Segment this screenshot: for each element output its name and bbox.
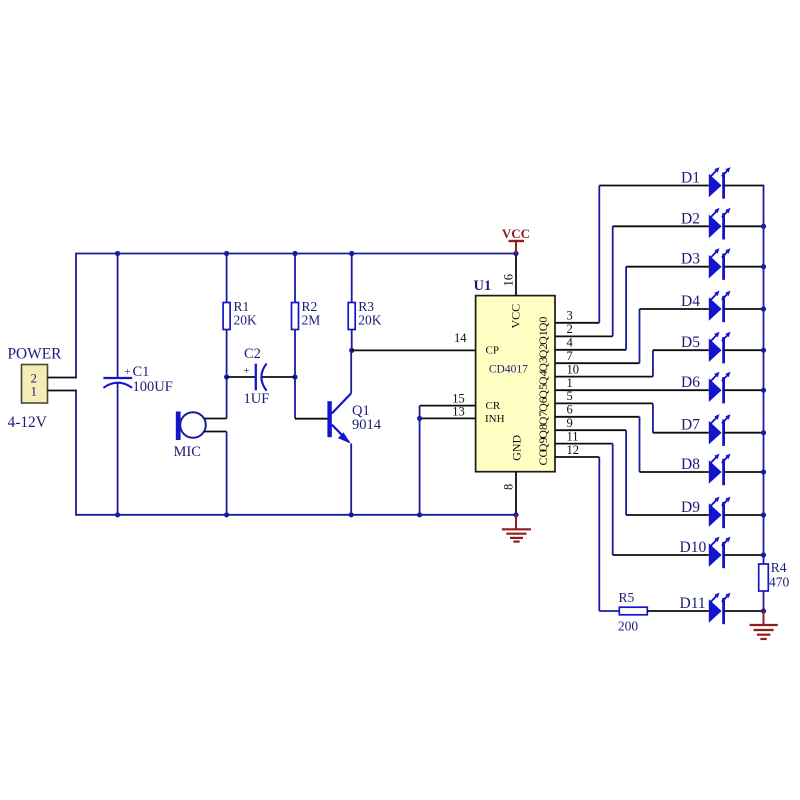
wire D1 cathode to right rail — [724, 185, 764, 187]
svg-text:Q5: Q5 — [536, 384, 550, 399]
svg-text:5: 5 — [567, 389, 573, 403]
wire D7 cathode to right rail — [724, 432, 764, 434]
svg-text:D9: D9 — [681, 499, 700, 516]
svg-text:D8: D8 — [681, 456, 700, 473]
wire left rail upper segment — [75, 253, 77, 378]
wire D10 row horizontal — [613, 554, 709, 556]
svg-text:13: 13 — [452, 404, 465, 418]
microphone MIC electret bar — [176, 412, 181, 441]
svg-text:GND: GND — [510, 434, 524, 460]
wire CR/INH vertical to ground rail — [419, 406, 421, 516]
svg-text:470: 470 — [769, 575, 790, 590]
node R1 / C2 junction — [224, 374, 229, 379]
node CR INH ground junction — [417, 512, 422, 517]
transistor Q1 emitter stroke — [332, 425, 349, 442]
node R2 top junction — [292, 251, 297, 256]
wire U1 pin 12 stub — [555, 456, 599, 458]
svg-text:2: 2 — [31, 372, 37, 386]
microphone MIC circle — [180, 412, 206, 438]
resistor R2 body — [292, 303, 299, 330]
wire U1 pin 10 stub — [555, 376, 653, 378]
wire D11 cathode to right rail — [724, 610, 764, 612]
wire U1 pin 15 CR stub — [420, 405, 476, 407]
node Q1 emitter ground junction — [349, 512, 354, 517]
svg-text:+: + — [243, 365, 249, 377]
LED D7 — [709, 414, 731, 446]
LED D6 — [709, 372, 731, 404]
svg-text:D11: D11 — [680, 595, 706, 612]
svg-text:Q7: Q7 — [536, 411, 550, 426]
wire U1 pin 3 stub — [555, 322, 599, 324]
wire U1 pin 2 stub — [555, 335, 613, 337]
wire U1 pin 5 stub — [555, 402, 653, 404]
svg-text:MIC: MIC — [174, 444, 201, 460]
wire pin12 riser corner to R5 — [599, 610, 619, 612]
node right rail junction at D7 — [761, 430, 766, 435]
svg-text:15: 15 — [452, 391, 465, 405]
wire D9 row horizontal — [626, 514, 709, 516]
node R2 / C2 junction — [292, 374, 297, 379]
wire C2 left lead — [227, 376, 256, 378]
node R3 / collector / CP junction — [349, 348, 354, 353]
svg-text:+: + — [124, 366, 130, 378]
wire R2 bottom lead to Q1 base node — [294, 330, 296, 419]
svg-text:VCC: VCC — [509, 304, 523, 329]
wire R1 bottom lead to mic node — [226, 330, 228, 419]
wire MIC lower lead — [204, 431, 227, 433]
wire U1 pin 1 to D6 — [555, 389, 709, 391]
node right rail junction at D5 — [761, 348, 766, 353]
LED D11 — [709, 593, 731, 625]
node right rail junction at D10 — [761, 552, 766, 557]
wire top VCC rail — [76, 253, 517, 255]
wire riser pin 10 to D5 row — [652, 350, 654, 376]
svg-text:D4: D4 — [681, 293, 700, 310]
svg-text:9014: 9014 — [352, 417, 382, 433]
svg-text:1: 1 — [567, 376, 573, 390]
svg-text:20K: 20K — [234, 312, 258, 327]
node ground junction at pin 8 — [513, 512, 518, 517]
wire U1 pin 4 stub — [555, 349, 626, 351]
capacitor C2 positive plate — [255, 364, 257, 391]
wire Q1 collector to CP node — [350, 350, 352, 393]
wire Q1 emitter to ground rail — [350, 444, 352, 516]
LED D9 — [709, 497, 731, 529]
wire D6 cathode to right rail — [724, 389, 764, 391]
wire connector pin 1 stub — [48, 390, 77, 392]
node D11 / R4 ground junction — [761, 608, 766, 613]
wire U1 pin 11 stub — [555, 443, 613, 445]
svg-text:2M: 2M — [302, 312, 321, 327]
wire C1 column lower — [117, 382, 119, 516]
wire U1 pin 6 stub — [555, 416, 640, 418]
wire riser pin 12 to D11 row — [598, 457, 600, 611]
capacitor C1 positive plate — [103, 377, 132, 379]
wire D4 cathode to right rail — [724, 308, 764, 310]
capacitor C2 curved plate — [261, 364, 266, 391]
svg-text:7: 7 — [567, 349, 573, 363]
wire MIC lower lead to ground rail — [226, 432, 228, 516]
svg-text:12: 12 — [567, 443, 580, 457]
node right rail junction at D8 — [761, 469, 766, 474]
LED D10 — [709, 537, 731, 569]
wire right rail D1 to R4 top — [763, 185, 765, 564]
svg-text:R5: R5 — [619, 590, 635, 605]
svg-text:Q8: Q8 — [536, 424, 550, 439]
svg-text:8: 8 — [502, 484, 516, 490]
resistor R1 body — [223, 303, 230, 330]
power VCC symbol stub — [515, 241, 517, 254]
svg-text:2: 2 — [567, 322, 573, 336]
wire riser pin 4 to D3 row — [625, 267, 627, 350]
svg-text:Q2: Q2 — [536, 344, 550, 359]
svg-text:20K: 20K — [358, 312, 382, 327]
svg-text:11: 11 — [567, 429, 579, 443]
resistor R3 body — [348, 303, 355, 330]
svg-text:14: 14 — [454, 331, 467, 345]
wire R5 to D11 — [647, 610, 709, 612]
node MIC ground junction — [224, 512, 229, 517]
ground symbol at D11 cathode — [750, 611, 778, 639]
svg-text:CO: CO — [536, 448, 550, 465]
svg-text:3: 3 — [567, 309, 573, 323]
svg-text:Q4: Q4 — [536, 370, 550, 385]
power VCC symbol bar — [509, 240, 525, 242]
node R1 top junction — [224, 251, 229, 256]
svg-text:D10: D10 — [680, 539, 707, 556]
wire riser pin 6 to D8 row — [639, 417, 641, 472]
svg-text:D5: D5 — [681, 334, 700, 351]
wire riser pin 2 to D2 row — [612, 226, 614, 336]
svg-text:4: 4 — [567, 336, 574, 350]
node right rail junction at D9 — [761, 512, 766, 517]
transistor Q1 base bar — [327, 401, 331, 437]
connector J1 body — [22, 365, 48, 404]
wire U1 pin 7 stub — [555, 362, 640, 364]
svg-text:POWER: POWER — [8, 346, 63, 363]
wire riser pin 7 to D4 row — [639, 309, 641, 363]
LED D5 — [709, 332, 731, 364]
svg-text:4-12V: 4-12V — [8, 414, 47, 431]
transistor Q1 emitter arrowhead — [338, 432, 351, 443]
svg-text:10: 10 — [567, 362, 580, 376]
wire D5 row horizontal — [653, 349, 709, 351]
svg-text:Q1: Q1 — [536, 330, 550, 345]
LED D3 — [709, 248, 731, 280]
svg-text:1UF: 1UF — [244, 391, 270, 407]
wire R4 bottom lead — [763, 591, 765, 611]
svg-text:C2: C2 — [244, 346, 261, 362]
wire D1 row horizontal — [599, 185, 709, 187]
wire D2 row horizontal — [613, 225, 709, 227]
svg-text:Q0: Q0 — [536, 317, 550, 332]
ground symbol below U1 pin 8 — [502, 515, 531, 542]
wire U1 pin 9 stub — [555, 429, 626, 431]
wire D8 cathode to right rail — [724, 471, 764, 473]
svg-text:16: 16 — [502, 274, 516, 287]
svg-text:9: 9 — [567, 416, 573, 430]
svg-text:U1: U1 — [474, 278, 492, 294]
LED D8 — [709, 454, 731, 486]
LED D1 — [709, 167, 731, 199]
svg-text:VCC: VCC — [502, 226, 530, 241]
wire D3 cathode to right rail — [724, 266, 764, 268]
wire R3 top lead — [351, 253, 353, 303]
node C1 bottom junction — [115, 512, 120, 517]
wire C1 column upper — [117, 253, 119, 378]
op wire CP net from collector node to pin 14 — [352, 349, 476, 351]
svg-text:CR: CR — [486, 400, 501, 412]
svg-text:CD4017: CD4017 — [489, 364, 528, 376]
svg-text:D6: D6 — [681, 374, 700, 391]
wire Q1 base lead — [295, 418, 328, 420]
wire R1 top lead — [226, 253, 228, 303]
node right rail junction at D6 — [761, 388, 766, 393]
svg-text:Q3: Q3 — [536, 357, 550, 372]
wire bottom ground rail — [76, 514, 517, 516]
node VCC junction on top rail — [513, 251, 518, 256]
wire R2 top lead — [294, 253, 296, 303]
resistor R4 body — [759, 564, 769, 591]
svg-text:1: 1 — [31, 385, 37, 399]
svg-text:D7: D7 — [681, 417, 700, 434]
wire D9 cathode to right rail — [724, 514, 764, 516]
svg-text:D3: D3 — [681, 251, 700, 268]
node C1 top junction — [115, 251, 120, 256]
svg-text:D1: D1 — [681, 170, 700, 187]
wire riser pin 3 to D1 row — [598, 186, 600, 323]
svg-text:D2: D2 — [681, 210, 700, 227]
svg-text:Q6: Q6 — [536, 397, 550, 412]
wire R3 bottom lead — [351, 330, 353, 351]
wire riser pin 5 to D7 row — [652, 403, 654, 432]
wire U1 pin 8 stub — [515, 472, 517, 515]
svg-text:200: 200 — [618, 619, 639, 634]
svg-text:100UF: 100UF — [133, 379, 173, 395]
IC U1 body — [476, 296, 555, 472]
svg-text:CP: CP — [486, 345, 499, 357]
LED D4 — [709, 291, 731, 323]
transistor Q1 collector stroke — [332, 393, 351, 413]
svg-text:6: 6 — [567, 403, 573, 417]
node R3 top junction — [349, 251, 354, 256]
svg-text:INH: INH — [485, 413, 505, 425]
node right rail junction at D4 — [761, 306, 766, 311]
wire D3 row horizontal — [626, 266, 709, 268]
wire U1 pin 16 stub — [515, 254, 517, 296]
node right rail junction at D3 — [761, 264, 766, 269]
LED D2 — [709, 208, 731, 240]
wire connector pin 2 stub — [48, 377, 77, 379]
svg-text:R4: R4 — [771, 560, 787, 575]
wire riser pin 9 to D9 row — [625, 430, 627, 515]
node CR INH junction — [417, 416, 422, 421]
wire MIC upper lead — [205, 418, 227, 420]
svg-text:C1: C1 — [133, 364, 150, 380]
wire D7 row horizontal — [653, 432, 709, 434]
wire riser pin 11 to D10 row — [612, 444, 614, 555]
wire D2 cathode to right rail — [724, 225, 764, 227]
wire D10 cathode to right rail — [724, 554, 764, 556]
capacitor C1 curved plate — [103, 383, 132, 388]
wire D8 row horizontal — [640, 471, 709, 473]
wire D5 cathode to right rail — [724, 349, 764, 351]
resistor R5 body — [619, 607, 647, 615]
wire D4 row horizontal — [640, 308, 709, 310]
wire left rail lower segment — [75, 391, 77, 516]
wire C2 right lead — [262, 376, 295, 378]
node right rail junction at D2 — [761, 224, 766, 229]
wire U1 pin 13 INH stub — [420, 417, 476, 419]
